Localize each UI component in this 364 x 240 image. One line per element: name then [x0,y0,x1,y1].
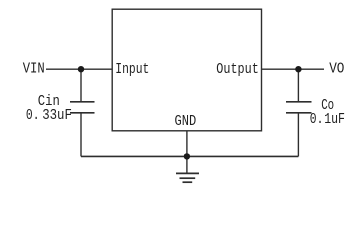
node junction dot on VIN wire [78,66,84,72]
wire VIN to Input pin [46,68,112,70]
ground symbol [176,172,199,174]
wire capacitor Co bottom lead [297,113,299,157]
node junction dot on VO wire [295,66,301,72]
wire capacitor Cin top lead [80,69,82,102]
capacitor Co plates [286,101,312,103]
wire GND pin of U1 down to bus [186,131,188,173]
svg-text:GND: GND [175,113,197,130]
svg-text:1uF: 1uF [324,111,345,128]
svg-text:0.: 0. [26,107,40,124]
regulator U1 body [112,9,261,131]
wire bottom ground bus [81,155,298,157]
wire capacitor Co top lead [297,69,299,102]
svg-text:Output: Output [216,61,258,78]
node junction dot on ground bus [184,153,190,159]
svg-text:Input: Input [115,61,149,78]
capacitor Cin plates [70,101,95,103]
svg-text:VIN: VIN [23,61,45,78]
svg-text:0.: 0. [310,111,324,128]
wire Output pin to VO [262,68,325,70]
wire capacitor Cin bottom lead [80,113,82,157]
svg-text:VO: VO [329,61,344,78]
svg-text:33uF: 33uF [42,107,72,124]
